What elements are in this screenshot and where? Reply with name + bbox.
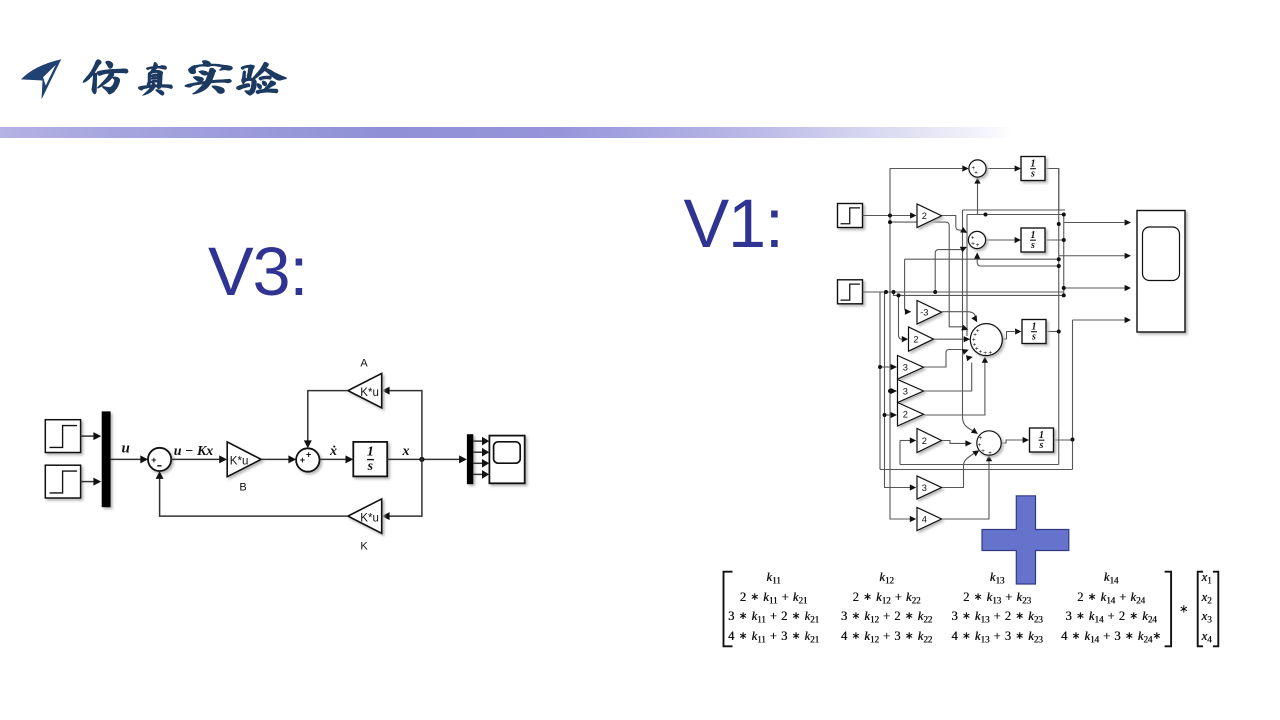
gain A (K*u) feedback top <box>348 358 382 408</box>
wire: inner box top <box>967 214 1064 216</box>
wire: -3 -> sum3 a1 <box>942 312 978 323</box>
wire: into gain2c <box>900 437 916 443</box>
step source block 1 (V3) <box>45 420 80 453</box>
svg-text:3: 3 <box>903 386 908 396</box>
wire integrator to demux, signal x <box>387 444 467 463</box>
wire: step1 -> gain2 top <box>863 212 917 218</box>
wire: gain3b -> sum3 a5 <box>924 355 973 391</box>
wire: sum2 in2 <box>935 247 967 292</box>
header title 仿真实验 (brush glyph outlines) <box>83 60 286 95</box>
svg-text:B: B <box>239 482 246 494</box>
integrator block 1/s (V3) <box>353 442 387 477</box>
svg-text:+: + <box>976 242 980 249</box>
wire: gain3b in <box>890 388 897 394</box>
junction node (898.5,295.4) <box>897 293 901 297</box>
gain 2 (second) <box>909 327 934 351</box>
wire: gain2a -> sum3 a3 <box>934 336 971 342</box>
gain -3 <box>917 301 942 325</box>
integrator 1/s block 1 (V1) <box>1021 157 1045 181</box>
wire: bus to outer box bottom <box>879 292 881 470</box>
wire: inner vertical <box>966 215 968 337</box>
wire: gain2a input <box>899 295 909 342</box>
wire: right long bus <box>1058 169 1060 465</box>
gradient underline bar <box>0 127 1013 138</box>
svg-text:+: + <box>981 448 985 455</box>
junction node (880,367) <box>878 365 882 369</box>
svg-text:s: s <box>1030 240 1035 251</box>
svg-text:K*u: K*u <box>230 456 249 468</box>
svg-text:3: 3 <box>922 483 927 493</box>
wire: sum4 -> integ4 <box>1001 437 1029 443</box>
wire: integ2 out <box>1045 239 1064 241</box>
wire: gain3a in <box>880 364 897 370</box>
svg-text:+: + <box>988 349 992 356</box>
wire: step2 long line <box>863 291 1064 293</box>
sum junction A3 (large) <box>970 324 1002 358</box>
wire x node to gain A input <box>382 387 422 460</box>
svg-text:+: + <box>300 455 305 465</box>
svg-text:+: + <box>983 350 987 357</box>
step source block 2 (V1) <box>838 280 863 304</box>
wire: box left vert -> sum4 a1 <box>963 210 978 434</box>
svg-text:4: 4 <box>922 514 927 524</box>
gain 3 (first) <box>898 356 924 380</box>
scope block (V3) <box>489 436 524 484</box>
wire step2 to mux <box>81 478 102 486</box>
demux bar <box>467 434 473 484</box>
junction node (1058.75,224) <box>1057 222 1061 226</box>
svg-text:1: 1 <box>367 445 374 460</box>
svg-text:A: A <box>360 358 368 370</box>
junction node (1063.75,214.5) <box>1062 213 1066 217</box>
wire gain B to sum S2 <box>261 455 296 463</box>
wire: into sum1 bottom <box>974 177 980 214</box>
wire: sum3 -> integ3 <box>1002 328 1022 339</box>
svg-text:+: + <box>978 349 982 356</box>
svg-text:K*u: K*u <box>360 512 379 524</box>
step source block 1 (V1) <box>838 204 863 228</box>
wire: bus to gain3c <box>885 292 917 491</box>
junction node (1063.75,240) <box>1062 238 1066 242</box>
wire: box top <box>963 209 1066 211</box>
svg-text:x: x <box>402 444 410 459</box>
wire step1 to mux <box>81 432 102 440</box>
svg-text:s: s <box>367 459 374 474</box>
svg-text:ẋ: ẋ <box>329 444 337 459</box>
svg-text:+: + <box>974 170 978 177</box>
svg-text:s: s <box>1030 169 1035 180</box>
svg-text:u − Kx: u − Kx <box>174 444 214 459</box>
label V3: <box>208 238 307 307</box>
wire: scope in4 <box>1073 317 1132 323</box>
gain K (K*u) feedback bottom <box>348 499 382 553</box>
demux to scope arrows <box>473 437 489 479</box>
junction node (1063.75,288) <box>1062 286 1066 290</box>
header paper-plane icon <box>21 59 61 99</box>
scope block (V1) <box>1137 211 1185 333</box>
junction node (884.5,415) <box>883 413 887 417</box>
gain B (K*u) <box>227 442 261 494</box>
wire: scope in2 <box>1059 253 1131 259</box>
svg-text:+: + <box>988 450 992 457</box>
sum junction S1 <box>148 448 171 471</box>
wire: sum2 -> integ2 <box>986 237 1021 243</box>
wire mux to sum S1, signal u <box>111 441 149 464</box>
matrix brackets <box>724 572 1219 647</box>
wire: gain3a -> sum3 a4 <box>924 349 969 367</box>
wire: sum1 -> integ1 <box>986 165 1021 171</box>
wire: outer box bottom <box>880 469 1073 471</box>
junction node (1058.75,259.2) <box>1057 257 1061 261</box>
svg-text:+: + <box>151 455 156 465</box>
wire: gain2top -> sum2 in1 <box>942 216 968 233</box>
wire: -3 input <box>905 259 912 315</box>
svg-text:+: + <box>979 435 983 442</box>
wire: elbow to right bus <box>894 292 1064 295</box>
integrator 1/s block 4 (V1) <box>1030 428 1054 452</box>
junction node (886,292) <box>884 290 888 294</box>
junction node (890,215.5) <box>888 214 892 218</box>
integrator 1/s block 2 (V1) <box>1021 228 1045 252</box>
sum junction S2 <box>296 448 319 471</box>
junction node (1063.75,295.4) <box>1062 293 1066 297</box>
junction node (1058.75,331.5) <box>1057 330 1061 334</box>
junction node (1072.5,439.5) <box>1071 438 1075 442</box>
wire gain K to sum S1 bottom <box>156 471 348 516</box>
wire: gain2b -> sum3 a6 <box>924 356 989 415</box>
wire: gain4 -> sum4 a4 <box>942 455 993 519</box>
junction node (890,222.1) <box>888 220 892 224</box>
junction node (1058.75,266) <box>1057 264 1061 268</box>
gain 3 (bottom) <box>917 476 942 499</box>
svg-text:2: 2 <box>903 410 908 420</box>
wire: scope in1 <box>1064 219 1131 225</box>
wire S2 to integrator, signal xdot <box>319 444 353 463</box>
wire: integ4 out <box>1054 439 1073 441</box>
wire x node to gain K input <box>382 459 422 520</box>
sum junction A2 <box>968 231 985 249</box>
wire: sum2 bottom <box>974 252 1059 266</box>
junction node (890,391) <box>888 389 892 393</box>
wire S1 to gain B, signal u-Kx <box>171 444 227 463</box>
node junction on x wire <box>419 457 424 462</box>
matrix cells <box>684 570 864 585</box>
gain 3 (second) <box>898 380 924 403</box>
wire: gain2b in <box>885 412 898 418</box>
wire: gain3c -> sum4 a3 <box>942 450 980 487</box>
svg-text:2: 2 <box>922 211 927 221</box>
sum junction A4 (bottom) <box>977 431 1001 457</box>
junction node (985.5,214.5) <box>984 213 988 217</box>
wire: -> sum3 a2 <box>890 222 968 330</box>
mux bar <box>102 411 111 507</box>
svg-text:s: s <box>1039 440 1044 451</box>
wire: integ1 out down <box>1045 169 1059 211</box>
gain 2 (top) <box>917 204 942 228</box>
wire: vert joining integ4 out and box bottom <box>1072 320 1074 470</box>
label V1: <box>684 190 783 259</box>
svg-text:2: 2 <box>922 436 927 446</box>
integrator 1/s block 3 (V1) <box>1022 320 1046 344</box>
wire: rise into gain2c input <box>899 441 901 465</box>
wire: inner box bottom <box>900 464 1059 466</box>
wire: scope in3 <box>1064 285 1131 291</box>
svg-text:K: K <box>360 541 368 553</box>
wire: gain2c -> sum4 a2 <box>942 440 972 446</box>
svg-text:+: + <box>971 240 975 247</box>
junction node (893.5,292) <box>892 290 896 294</box>
wire: up to sum1 <box>890 165 969 215</box>
big plus symbol <box>982 496 1069 584</box>
wire: right mini bus <box>1063 215 1065 296</box>
svg-text:s: s <box>1031 332 1036 343</box>
svg-text:-3: -3 <box>920 308 928 318</box>
step source block 2 (V3) <box>45 465 80 498</box>
svg-text:2: 2 <box>913 334 918 344</box>
gain 2 (fourth) <box>917 429 942 453</box>
gain 4 (bottom) <box>917 508 942 531</box>
junction node (935.2,292) <box>933 290 937 294</box>
wire: long line y=259 <box>905 258 1059 260</box>
gain 2 (third) <box>898 403 924 427</box>
sum junction A1 (top) <box>969 160 986 177</box>
svg-text:u: u <box>122 441 130 457</box>
svg-text:+: + <box>306 449 311 459</box>
svg-text:3: 3 <box>903 363 908 373</box>
wire gain A to sum S2 top <box>304 391 348 449</box>
wire: integ3 out to bus <box>1046 331 1059 333</box>
svg-text:K*u: K*u <box>360 387 379 399</box>
wire: bus to gain4 <box>890 216 916 523</box>
